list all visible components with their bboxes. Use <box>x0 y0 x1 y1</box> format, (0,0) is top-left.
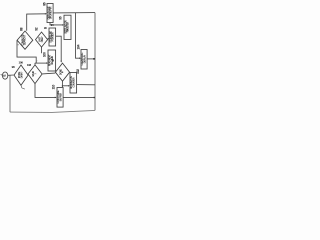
wire top feedback horizontal into box 86 <box>27 14 46 31</box>
arrowhead into box 110 top <box>62 86 64 88</box>
svg-text:100: 100 <box>42 52 46 57</box>
diamond 10 <box>55 63 69 81</box>
wire diamond 106 bottom stub <box>21 85 25 89</box>
diamond 106 <box>14 65 28 85</box>
svg-text:92: 92 <box>35 27 39 31</box>
wire junction into box 100 <box>35 62 47 64</box>
wire box 110 right to rail <box>63 96 95 98</box>
wire diamond 92 right into box 94 <box>48 38 49 40</box>
arrowhead into box 110 left <box>55 97 57 99</box>
wire box 104 right to rail <box>87 58 95 60</box>
svg-text:COUNTER: COUNTER <box>73 77 76 87</box>
connector circle <box>2 72 7 79</box>
junction dot at box 110 rail <box>94 97 95 98</box>
diamond 92 <box>36 32 48 47</box>
bottom rail <box>10 110 95 112</box>
arrowhead into box 86 <box>45 13 47 15</box>
wire diamond 108 top up <box>34 63 36 65</box>
svg-text:88: 88 <box>20 27 24 31</box>
wire diamond 108 right to diamond 10 left <box>42 72 55 75</box>
wire box 86 bottom to box 96 <box>50 23 63 25</box>
arrowhead into box 104 <box>79 57 81 59</box>
arrowhead into box 100 <box>46 62 48 64</box>
svg-text:104: 104 <box>76 44 80 49</box>
wire branch down x75.5 into box 104 <box>76 13 81 58</box>
svg-text:UPDATE PTR: UPDATE PTR <box>50 6 53 19</box>
arrowhead into box 102 <box>68 85 70 87</box>
svg-text:96: 96 <box>58 16 62 20</box>
wire box 94 right then down into diamond 10 top <box>56 36 62 61</box>
dark dot in box 96 <box>67 29 68 30</box>
diamond 108 <box>28 65 42 84</box>
svg-text:SEARCH ?: SEARCH ? <box>24 34 27 45</box>
arrowhead into box 96 <box>62 24 64 26</box>
left rail vertical up to connector line <box>9 75 11 112</box>
wire box 86 right to right rail <box>53 12 95 14</box>
wire diamond 88 left loop down and right <box>17 40 36 63</box>
box 94 <box>49 28 56 46</box>
svg-text:110: 110 <box>52 85 56 90</box>
svg-text:106: 106 <box>18 61 23 65</box>
svg-text:ONE?: ONE? <box>41 36 44 42</box>
svg-text:POINTER: POINTER <box>52 32 55 41</box>
svg-text:DISPLAY: DISPLAY <box>83 54 86 63</box>
box 100 <box>48 50 56 71</box>
right rail vertical <box>94 13 96 111</box>
svg-text:REGISTER: REGISTER <box>67 22 70 33</box>
arrowhead into diamond 10 top <box>60 61 62 63</box>
wire diamond 10 bottom split <box>61 81 63 87</box>
box 102 <box>70 73 77 94</box>
svg-text:DATA?: DATA? <box>20 71 23 78</box>
svg-text:86: 86 <box>42 2 46 6</box>
dark dot in diamond 10 <box>62 72 63 73</box>
wire box 102 right to rail <box>77 84 95 86</box>
wire diamond 92 bottom down <box>41 47 43 53</box>
wire tick left of connector <box>1 73 2 76</box>
svg-text:VALUE IN: VALUE IN <box>51 56 54 65</box>
arrowhead into box 94 <box>47 38 50 40</box>
svg-text:102: 102 <box>76 69 80 74</box>
box 110 <box>57 88 63 108</box>
box 104 <box>81 50 87 70</box>
box 96 <box>64 15 71 39</box>
svg-text:108: 108 <box>27 63 32 67</box>
wire diamond 108 bottom down and right into box 110 <box>35 84 56 98</box>
wire connector circle to diamond 106 <box>8 74 14 76</box>
diamond 88 <box>17 31 33 49</box>
box 86 top process box <box>47 4 53 23</box>
wire split right into box 102 <box>62 85 69 87</box>
junction dot at box 104 rail <box>93 58 95 60</box>
svg-text:BUFFER: BUFFER <box>59 93 62 102</box>
